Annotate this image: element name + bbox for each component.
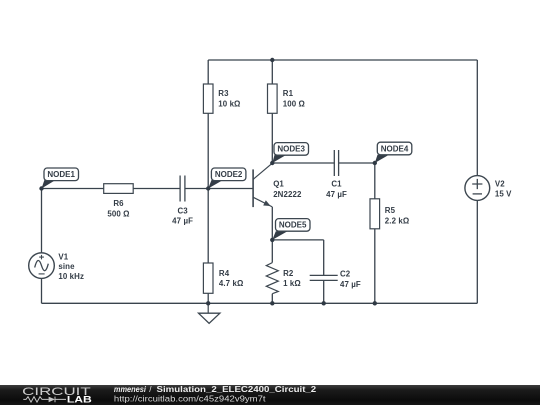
svg-text:Simulation_2_ELEC2400_Circuit_: Simulation_2_ELEC2400_Circuit_2 [157, 385, 317, 394]
svg-text:500 Ω: 500 Ω [107, 209, 129, 218]
junction dot C2 bottom [322, 301, 326, 305]
wire C2 to bottom rail [323, 280, 325, 303]
wire node5 to C2 [272, 239, 323, 241]
wire Q1 emitter to node5 [271, 207, 273, 240]
svg-text:R1: R1 [283, 89, 294, 98]
svg-text:mmenesi: mmenesi [114, 385, 147, 394]
capacitor C2 [310, 275, 338, 280]
wire node2 to R4 [207, 189, 209, 264]
wire R3 to node2 [207, 113, 209, 188]
wire right rail upper [476, 60, 478, 176]
svg-text:NODE5: NODE5 [279, 221, 307, 230]
capacitor C3 [180, 176, 185, 202]
transistor Q1 [253, 163, 272, 207]
svg-text:10 kHz: 10 kHz [58, 272, 84, 281]
wire R5 to bottom rail [374, 229, 376, 303]
wire top rail to R1 [271, 60, 273, 84]
junction dot node2 [206, 186, 210, 190]
junction dot top rail R1 [270, 58, 274, 62]
svg-text:NODE1: NODE1 [47, 170, 75, 179]
wire R2 to bottom rail [271, 294, 273, 304]
svg-text:NODE4: NODE4 [381, 144, 409, 153]
svg-text:100 Ω: 100 Ω [283, 99, 305, 108]
wire node5 to R2 [271, 240, 273, 263]
svg-text:R2: R2 [283, 269, 294, 278]
svg-text:Q1: Q1 [273, 180, 284, 189]
source V1 [29, 253, 55, 279]
node NODE1 anchor dot [39, 186, 43, 190]
wire to C2 top [323, 240, 325, 276]
junction dot R5 bottom [373, 301, 377, 305]
svg-text:R3: R3 [218, 89, 229, 98]
svg-text:NODE2: NODE2 [215, 170, 243, 179]
node NODE5 [272, 219, 310, 240]
resistor R1 [268, 84, 278, 113]
svg-text:C2: C2 [340, 270, 351, 279]
wire bottom rail [42, 302, 478, 304]
junction dot node5 [270, 238, 274, 242]
wire R4 to bottom rail [207, 293, 209, 303]
wire C3 to Q1 base [185, 188, 253, 190]
svg-text:2N2222: 2N2222 [273, 190, 302, 199]
node NODE1 [42, 168, 79, 189]
junction dot R2 bottom [270, 301, 274, 305]
wire left rail lower [41, 278, 43, 303]
svg-text:47 µF: 47 µF [326, 190, 347, 199]
svg-text:V2: V2 [495, 180, 505, 189]
svg-text:R4: R4 [219, 269, 230, 278]
resistor R6 [104, 184, 134, 194]
svg-text:C3: C3 [177, 206, 188, 215]
resistor R4 [203, 263, 213, 293]
resistor R3 [203, 84, 213, 113]
node NODE3 [272, 143, 308, 163]
svg-text:R6: R6 [113, 199, 124, 208]
svg-text:15 V: 15 V [495, 189, 512, 198]
wire node1 to R6 [42, 188, 104, 190]
junction dot node4 [373, 161, 377, 165]
wire node4 to R5 [374, 163, 376, 199]
wire R1 to node3 [271, 113, 273, 163]
svg-text:NODE3: NODE3 [277, 145, 305, 154]
capacitor C1 [334, 150, 338, 176]
resistor R5 [370, 199, 380, 229]
svg-text:10 kΩ: 10 kΩ [218, 99, 240, 108]
svg-text:sine: sine [58, 262, 75, 271]
svg-text:47 µF: 47 µF [340, 280, 361, 289]
node NODE4 [375, 142, 412, 163]
resistor R2 [266, 263, 278, 294]
svg-text:R5: R5 [385, 206, 396, 215]
junction dot node3 [270, 161, 274, 165]
ground [199, 303, 220, 323]
wire C1 to node4 [339, 162, 375, 164]
svg-text:47 µF: 47 µF [172, 217, 193, 226]
wire top rail to R3 [207, 60, 209, 84]
svg-text:4.7 kΩ: 4.7 kΩ [219, 279, 243, 288]
node NODE2 [208, 168, 246, 189]
svg-text:2.2 kΩ: 2.2 kΩ [385, 217, 409, 226]
svg-text:http://circuitlab.com/c45z942v: http://circuitlab.com/c45z942v9ym7t [114, 394, 267, 403]
junction dot ground [206, 301, 210, 305]
CircuitLab logo resistor-diode glyph [23, 397, 66, 403]
source V2 [465, 176, 490, 201]
svg-text:/: / [149, 385, 152, 394]
wire R6 to C3 [133, 188, 180, 190]
svg-text:LAB: LAB [67, 395, 92, 405]
wire left rail upper [41, 189, 43, 253]
wire top rail [208, 59, 477, 61]
svg-text:C1: C1 [331, 180, 342, 189]
wire right rail lower [476, 200, 478, 303]
wire node3 to C1 [272, 162, 334, 164]
svg-text:1 kΩ: 1 kΩ [283, 279, 301, 288]
svg-text:V1: V1 [58, 253, 68, 262]
